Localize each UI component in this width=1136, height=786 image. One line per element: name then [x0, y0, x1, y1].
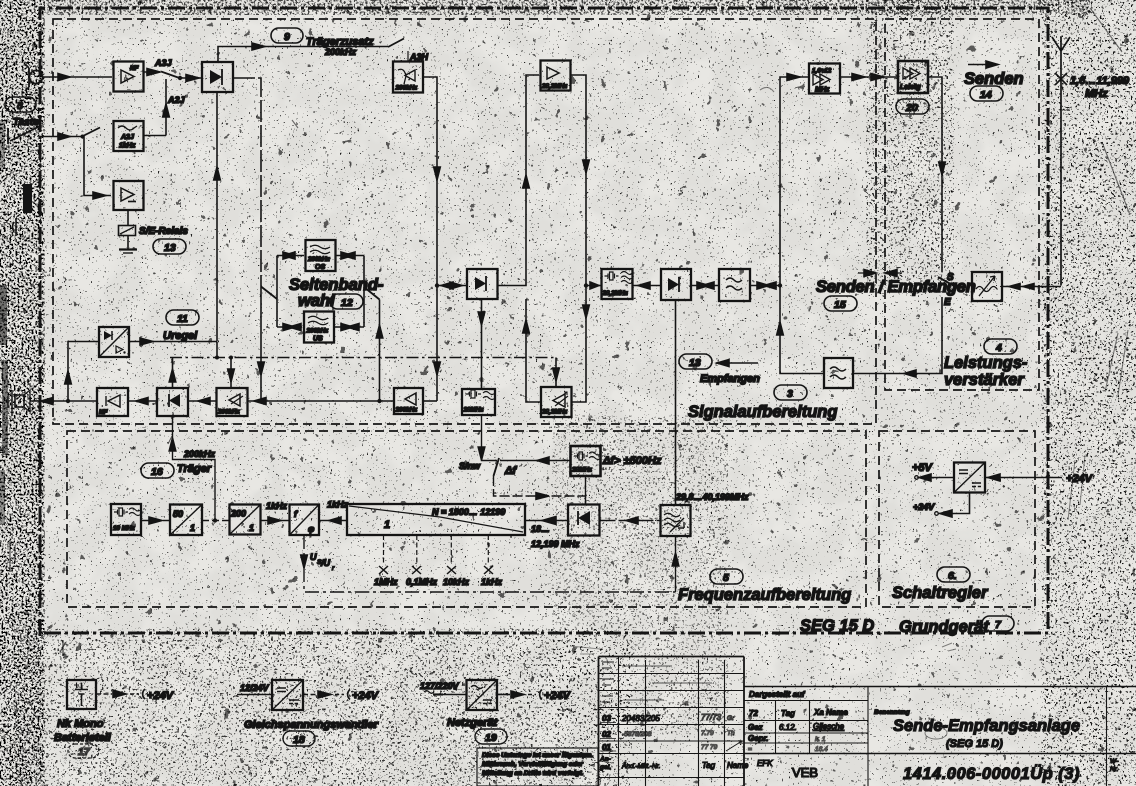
dashed box Frequenzaufbereitung	[67, 431, 866, 607]
wire filter to M3 with arrows	[633, 285, 662, 287]
wire +24V input right	[985, 477, 1062, 479]
wire x780 vertical up to 1.6-12MHz amp	[780, 77, 808, 286]
oval 16	[141, 463, 174, 478]
wire mixer M2 up to 28.2 amp	[498, 75, 540, 286]
wire to f/phi	[261, 520, 290, 522]
oval 6	[937, 567, 970, 582]
oval 3	[774, 385, 807, 400]
svg-text:VEB: VEB	[792, 765, 818, 780]
oscillator 10MHz	[111, 504, 141, 535]
oval 11	[166, 310, 199, 325]
amplifier 28.2MHz top	[541, 61, 571, 91]
wire right common down x=379	[379, 300, 381, 402]
svg-text:+24V: +24V	[1066, 473, 1094, 485]
svg-text:Gepr.: Gepr.	[748, 734, 768, 743]
converter block	[954, 463, 985, 493]
svg-text:Xa Name: Xa Name	[813, 708, 848, 717]
svg-text:+24V: +24V	[352, 690, 380, 702]
svg-text:6.12.: 6.12.	[779, 723, 797, 732]
wire filter left to x780 vertical	[780, 286, 824, 374]
modulator M1	[202, 62, 233, 92]
svg-text:50: 50	[173, 509, 183, 519]
svg-text:G.: G.	[727, 715, 734, 722]
svg-text:Grundgerät: Grundgerät	[899, 618, 990, 636]
modulator M2	[467, 269, 498, 299]
svg-text:1kHz: 1kHz	[327, 500, 349, 510]
amplifier 200kHz IF2	[394, 388, 423, 414]
svg-text:28,2MHz: 28,2MHz	[541, 83, 568, 90]
svg-text:Frequenzaufbereitung: Frequenzaufbereitung	[678, 586, 851, 604]
svg-text:8: 8	[17, 100, 23, 112]
divider N	[347, 504, 525, 535]
svg-text:1,6÷12: 1,6÷12	[812, 68, 832, 75]
AGC bus dash-dot	[170, 357, 556, 359]
svg-text:Gleichspannungswandler: Gleichspannungswandler	[244, 719, 379, 731]
wire M4 right to VCO	[600, 520, 661, 522]
wire to divider 50	[141, 520, 170, 522]
svg-text:E: E	[944, 297, 951, 308]
svg-text:U: U	[310, 552, 317, 562]
filter 200kHz OS	[306, 240, 336, 271]
divider 50/1	[170, 505, 202, 536]
svg-text:Gliesche: Gliesche	[813, 722, 845, 731]
wire +5V output left	[920, 477, 954, 479]
wire osc28 down to delta-f junction	[482, 415, 498, 461]
right columns	[1106, 687, 1108, 786]
label A3J with arrow and switch	[144, 71, 161, 73]
speaker left	[15, 395, 24, 407]
oval 9	[271, 28, 303, 43]
oval 7	[982, 616, 1014, 631]
svg-text:19: 19	[485, 732, 497, 744]
amplifier 1.6-12MHz	[809, 64, 840, 94]
svg-text:/U: /U	[320, 558, 331, 568]
svg-text:A3H: A3H	[409, 52, 429, 62]
receive line to speaker	[30, 400, 97, 402]
svg-text:15: 15	[834, 299, 846, 311]
VCO 29.8-40.199	[661, 505, 691, 536]
wire rev amp left up to M2	[526, 299, 541, 402]
relay S/E	[127, 210, 129, 225]
svg-text:12,199 MHz: 12,199 MHz	[531, 539, 580, 549]
svg-text:-5378/208: -5378/208	[622, 731, 652, 738]
svg-text:EFK: EFK	[757, 759, 773, 768]
wire left common down x=261 continues	[260, 286, 262, 401]
svg-text:10kHz: 10kHz	[443, 577, 470, 587]
wire corner down to AGC bus	[216, 342, 218, 358]
wire Traegerzusatz line	[218, 47, 388, 62]
svg-text:9: 9	[284, 31, 290, 43]
svg-text:Taste: Taste	[13, 117, 39, 128]
wires US row with arrows	[277, 326, 364, 328]
wire M2 bottom down to osc 28MHz	[481, 299, 483, 388]
wire Uregel output right	[129, 341, 217, 343]
antenna	[1052, 37, 1070, 286]
svg-text:20483/205: 20483/205	[621, 714, 660, 723]
annotation Senden arrow	[968, 64, 998, 66]
switch delta f	[494, 458, 500, 476]
svg-text:200: 200	[230, 509, 246, 519]
svg-text:200kHz: 200kHz	[395, 407, 419, 414]
amplifier DC (S/E)	[114, 181, 144, 210]
wire	[128, 400, 157, 402]
wire A2J feedback vertical	[165, 79, 167, 136]
output Us/Ur	[304, 535, 676, 592]
filter A2J 1kHz	[114, 121, 144, 151]
svg-text:Empfangen: Empfangen	[700, 373, 760, 385]
filter lowpass RX	[824, 358, 853, 388]
wires OS row with arrows	[277, 255, 364, 257]
svg-text:Schaltregler: Schaltregler	[892, 584, 989, 602]
svg-text:Nr.: Nr.	[1110, 766, 1119, 773]
svg-text:+24V: +24V	[147, 690, 175, 702]
wire mic to NF amp with arrow	[43, 76, 112, 78]
wire wandler +24V	[303, 694, 317, 696]
svg-text:6.: 6.	[948, 570, 957, 582]
svg-text:NF: NF	[130, 65, 139, 72]
amplifier NF	[114, 62, 144, 92]
svg-text:02: 02	[602, 730, 611, 739]
svg-text:φ: φ	[308, 524, 315, 534]
denser margins	[0, 0, 42, 786]
wire 28.2 amp right down x=586	[571, 75, 587, 402]
filter 200kHz US	[304, 312, 334, 343]
svg-text:1kHz: 1kHz	[119, 143, 136, 150]
svg-text:1,6…11,999: 1,6…11,999	[1070, 75, 1130, 87]
svg-text:Batterieteil: Batterieteil	[54, 732, 112, 744]
svg-text:Senden / Empfangen: Senden / Empfangen	[816, 278, 976, 296]
svg-text:18: 18	[293, 734, 305, 746]
wire mixer M1 bottom down x=217	[216, 92, 218, 341]
svg-text:=: =	[748, 746, 752, 753]
svg-text:S/nw: S/nw	[459, 461, 481, 471]
svg-text:Änd.-Mitt.-Nr.: Änd.-Mitt.-Nr.	[621, 762, 661, 770]
svg-text:Gez: Gez	[748, 723, 763, 732]
svg-text:Mitteilung an Dritte wird verf: Mitteilung an Dritte wird verfolgt.	[482, 770, 584, 777]
small dashes in first col	[602, 662, 614, 702]
svg-text:1kHz: 1kHz	[481, 577, 503, 587]
divider 200/1	[230, 505, 261, 535]
bus drop arrows	[172, 358, 174, 388]
svg-text:Mißbrauch, Vervielfältigung: Mißbrauch, Vervielfältigung oder	[482, 761, 583, 768]
facing arrows on box boundary (Senden/Empfangen markers top)	[871, 74, 884, 81]
wire M4 left to divider N	[525, 520, 568, 522]
svg-text:Benennung: Benennung	[874, 709, 910, 716]
svg-text:77 79: 77 79	[701, 744, 718, 751]
svg-text:verstärker: verstärker	[944, 371, 1025, 389]
wires M2 left with arrows	[437, 285, 466, 287]
svg-text:S/E-Relais: S/E-Relais	[139, 226, 188, 237]
oval 4	[984, 339, 1017, 354]
svg-text:1: 1	[384, 519, 390, 531]
svg-text:An-: An-	[599, 756, 611, 763]
oval 13	[153, 239, 186, 254]
oval 13b	[679, 354, 712, 369]
svg-text:+5V: +5V	[912, 462, 934, 474]
svg-text:13: 13	[164, 242, 176, 254]
svg-text:12: 12	[341, 297, 353, 309]
switch at junction to A2J	[82, 128, 100, 137]
svg-text:Leistungs-: Leistungs-	[944, 354, 1028, 372]
svg-text:Tag: Tag	[702, 761, 716, 770]
battery block	[67, 680, 96, 709]
svg-text:Tag: Tag	[781, 709, 795, 718]
svg-text:72: 72	[749, 709, 758, 718]
wire crystal to switch	[500, 460, 570, 462]
svg-text:Leistg: Leistg	[900, 84, 921, 91]
oval 20	[896, 99, 929, 114]
svg-text:77/73: 77/73	[701, 713, 722, 722]
svg-text:11: 11	[177, 313, 188, 325]
demodulator RX	[157, 388, 188, 416]
svg-text:Name: Name	[727, 761, 749, 770]
svg-text:200kHz: 200kHz	[324, 47, 357, 57]
oscillator 28MHz quartz	[571, 446, 601, 476]
svg-text:1MHz: 1MHz	[374, 577, 398, 587]
svg-text:28,2MHz: 28,2MHz	[541, 409, 568, 416]
svg-text:(SEG 15 D): (SEG 15 D)	[946, 738, 1003, 750]
svg-text:Dargestellt auf: Dargestellt auf	[749, 690, 806, 699]
svg-text:Th: Th	[727, 730, 735, 737]
svg-text:Δf> ±500Hz: Δf> ±500Hz	[602, 455, 662, 467]
ground	[127, 236, 129, 250]
svg-text:28,2MHz: 28,2MHz	[602, 290, 629, 297]
svg-text:0,1MHz: 0,1MHz	[406, 577, 438, 587]
svg-text:N = 1800… 12199: N = 1800… 12199	[432, 507, 505, 517]
modulator M4	[568, 505, 600, 536]
wire +24V output below	[940, 493, 970, 514]
microphone	[30, 71, 43, 84]
wire PA right and down x=942	[928, 77, 942, 272]
wire battery +24V	[96, 693, 112, 695]
modulator M3	[661, 269, 691, 300]
svg-text:+24V: +24V	[913, 502, 935, 512]
svg-text:k. 1: k. 1	[815, 736, 826, 743]
oval 14	[970, 86, 1003, 101]
wire f/phi left from big divider	[319, 520, 347, 522]
svg-text:18…: 18…	[531, 524, 550, 534]
annotation Empfangen arrow	[716, 362, 758, 364]
svg-text:16: 16	[151, 466, 163, 478]
wire M3 to filter with arrows	[691, 285, 719, 287]
svg-text:200kHz: 200kHz	[307, 256, 331, 263]
svg-text:28MHz: 28MHz	[463, 407, 485, 414]
svg-text:200kHz: 200kHz	[183, 449, 216, 459]
svg-text:20: 20	[905, 102, 918, 114]
wire filter to x780 junction with arrows	[750, 285, 780, 287]
svg-text:1414.006-00001Üp (3): 1414.006-00001Üp (3)	[903, 764, 1080, 783]
svg-text:03: 03	[602, 714, 611, 723]
attenuator block	[972, 272, 1002, 301]
wire long segment	[248, 400, 395, 402]
inner dashed box Signalaufbereitung	[53, 19, 876, 424]
switch Taste	[7, 128, 9, 144]
svg-text:4: 4	[995, 342, 1002, 354]
left revision table	[599, 657, 745, 786]
switch on Traegerzusatz line	[388, 39, 404, 48]
svg-text:Δf: Δf	[504, 465, 517, 477]
svg-text:5: 5	[723, 572, 729, 584]
svg-text:7.79: 7.79	[701, 730, 714, 737]
oval 15	[824, 296, 857, 311]
oval 18	[283, 731, 315, 746]
dashed box Schaltregler	[879, 431, 1035, 607]
svg-text:Signalaufbereitung: Signalaufbereitung	[688, 403, 837, 421]
comparator f/phi	[290, 505, 320, 536]
outer heavy dash-dot frame	[40, 8, 1048, 636]
filter A3H 200kHz	[393, 62, 423, 93]
svg-text:Uregel: Uregel	[163, 330, 198, 342]
wire A3H down x=437	[423, 77, 437, 401]
svg-text:16.4: 16.4	[815, 746, 828, 753]
oval 19	[475, 729, 507, 744]
svg-text:Träger: Träger	[177, 463, 212, 475]
filter 28.2 lowpass	[719, 269, 750, 301]
wire E contact down to RX filter	[854, 297, 942, 374]
svg-text:Sende-Empfangsanlage: Sende-Empfangsanlage	[893, 717, 1080, 735]
wire to junction and divider 200	[202, 520, 229, 522]
regulator block Uregel (diode + amp)	[99, 327, 129, 357]
svg-text:29,8…40,199MHz: 29,8…40,199MHz	[675, 492, 749, 502]
wire M3 down to VCO (x=675)	[675, 300, 677, 505]
svg-text:14: 14	[980, 89, 992, 101]
svg-text:Netzgerät: Netzgerät	[447, 717, 498, 729]
svg-text:200kHz: 200kHz	[395, 85, 419, 92]
oval 8	[5, 97, 36, 112]
switch blade to node	[161, 72, 180, 79]
svg-text:NF: NF	[99, 409, 108, 416]
wire junction down to DC amp	[83, 137, 112, 196]
power amplifier Leistung	[898, 61, 928, 93]
svg-text:SEG 15 D: SEG 15 D	[800, 617, 874, 635]
wire mixer M1 right, down x=261	[233, 78, 261, 286]
oval 5	[710, 569, 743, 584]
svg-text:200kHz: 200kHz	[306, 328, 330, 335]
amplifier 28.2MHz receive	[541, 387, 572, 417]
svg-text:1: 1	[249, 523, 254, 533]
filter 104 28.2MHz	[602, 269, 633, 299]
svg-text:Diese Unterlage ist unser Eige: Diese Unterlage ist unser Eigentum.	[482, 752, 593, 759]
wire	[188, 400, 216, 402]
svg-text:13: 13	[689, 357, 701, 369]
switch blades	[261, 287, 277, 300]
svg-text:+24V: +24V	[544, 690, 572, 702]
svg-text:28MHz: 28MHz	[571, 467, 593, 474]
svg-text:127/220V: 127/220V	[420, 681, 460, 691]
svg-text:W-: W-	[1110, 758, 1119, 765]
amplifier NF receive	[97, 388, 128, 416]
svg-text:A3J: A3J	[154, 58, 173, 68]
svg-text:gel.: gel.	[599, 764, 611, 771]
svg-text:MHz: MHz	[1085, 88, 1108, 100]
svg-text:A2J: A2J	[167, 95, 186, 105]
wire to x437 junction	[423, 400, 437, 402]
svg-text:A2J: A2J	[120, 134, 135, 141]
svg-text:Nk Mono: Nk Mono	[57, 718, 104, 730]
wire Taste to junction	[40, 136, 82, 138]
wire to PA	[840, 76, 897, 78]
wire from x586 junction	[586, 285, 601, 287]
svg-text:3: 3	[787, 388, 793, 400]
wire VCO bottom from Us line	[675, 536, 677, 592]
svg-text:OS: OS	[315, 264, 325, 271]
wire Uregel input tap from receive line	[68, 342, 99, 402]
svg-text:1: 1	[190, 523, 195, 533]
svg-text:10 MHz: 10 MHz	[113, 525, 136, 532]
wire crystal down to M4	[585, 476, 587, 504]
inner dashed box Leistungsverstaerker	[885, 19, 1039, 390]
facing arrows between dashed boxes (Senden/Empfangen boundary)	[858, 272, 902, 274]
svg-text:1kHz: 1kHz	[266, 501, 288, 511]
oval 12	[330, 294, 363, 309]
wire attenuator to antenna line	[1002, 286, 1061, 288]
svg-text:US: US	[313, 336, 323, 343]
bracket verticals	[277, 256, 364, 328]
svg-text:200kHz: 200kHz	[217, 409, 241, 416]
wire Traeger carrier up into mixer RX	[173, 416, 216, 521]
oscillator 28MHz	[462, 389, 495, 415]
wire node to mixer M1	[180, 77, 201, 79]
amplifier 200kHz receive	[217, 388, 248, 416]
svg-text:MHz: MHz	[815, 87, 830, 94]
main head area	[744, 687, 1136, 754]
svg-text:12/24V: 12/24V	[240, 683, 270, 693]
wire netz +24V	[497, 694, 510, 696]
svg-text:17: 17	[78, 746, 91, 758]
decade tick lines and X	[384, 535, 489, 565]
oval 17	[68, 744, 99, 758]
